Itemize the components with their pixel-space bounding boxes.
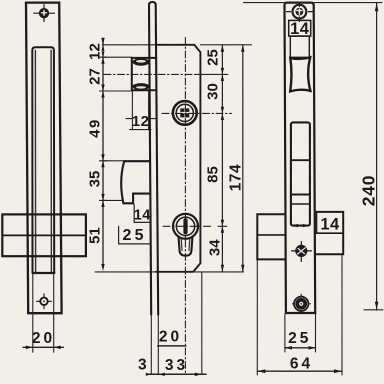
svg-text:174: 174 [227,164,244,191]
svg-text:34: 34 [207,239,224,256]
deadbolt stack (edge view) [291,122,310,225]
latch centreline [104,73,197,75]
cylinder centreline horizontal [163,225,213,227]
svg-text:64: 64 [290,356,313,373]
latch centreline extension [197,73,228,75]
top screw hole left plate [34,5,55,22]
svg-text:30: 30 [205,83,222,100]
bottom screw hole left plate [37,294,52,309]
svg-text:51: 51 [87,227,104,244]
dim line 20 [158,345,186,347]
boxed dim 14 top [289,20,311,36]
chain dim line [221,45,223,272]
long extension case bottom [95,271,244,273]
follower centreline horizontal [162,112,232,114]
extension hook top [103,160,125,162]
vertical centreline through follower and cylinder [184,38,186,375]
case left wing (edge view) [257,214,285,259]
lower fixing hole right plate [293,295,311,314]
svg-text:20: 20 [159,329,182,346]
svg-text:33: 33 [165,357,188,374]
column line [102,42,104,267]
extension hook bottom [103,199,123,201]
svg-text:12: 12 [132,113,150,130]
left plate slot outer [32,47,54,273]
dim 25 bracket [119,226,150,244]
extension case top to right [201,44,252,46]
middle screw hole right plate [292,242,312,262]
bottom dim line 3 / 33 [148,373,207,375]
svg-text:20: 20 [32,330,55,347]
svg-text:240: 240 [358,175,378,207]
latch window [290,36,309,57]
svg-text:25: 25 [288,330,311,347]
dim 14 bracket (hook) [134,205,150,223]
arrowheads on chain dim line [221,45,245,272]
svg-text:25: 25 [205,49,222,66]
left plate slot bottom [33,272,55,274]
euro cylinder (middle view) [173,214,198,256]
faceplate middle [149,2,158,315]
extension latch bottom [103,90,132,92]
svg-text:27: 27 [86,68,103,85]
dim 12 latch width [126,92,155,130]
extension case right [201,273,203,375]
extension case top [103,44,157,46]
svg-text:12: 12 [86,43,103,60]
top screw hole right plate [287,3,314,21]
lock case middle [156,45,200,272]
tick at cylinder level [218,225,227,227]
svg-text:35: 35 [86,171,103,188]
svg-text:14: 14 [320,216,340,234]
hook bolt (middle view) [121,161,149,203]
arrowheads on left dim column [101,38,104,271]
svg-text:85: 85 [205,166,222,183]
left plate outline [26,3,62,314]
svg-text:14: 14 [290,20,310,38]
left plate slot inner lines [34,51,36,273]
svg-text:14: 14 [134,207,151,223]
dimension 240 (far right) [244,3,384,310]
latch head (middle view) [132,58,156,90]
overall 174 dim line [242,45,244,272]
tick marks [100,57,107,200]
bolt width arrows [291,224,310,227]
extension faceplate right [157,316,159,375]
latch roller (edge view) [290,57,310,91]
svg-text:3: 3 [138,356,147,373]
dimension 25 (right bottom) [285,314,316,352]
dimension 64 (right bottom) [257,256,342,376]
case right wing with boxed dim 14 [315,212,343,254]
svg-text:49: 49 [86,118,103,138]
extension latch top [103,56,132,58]
extension faceplate left [150,316,152,375]
dimension 20 (left bottom) [23,274,64,352]
bolt housing box (left view) [2,214,86,256]
right plate outline [284,3,315,313]
follower (handle spindle) [173,101,197,125]
svg-text:25: 25 [122,227,146,244]
